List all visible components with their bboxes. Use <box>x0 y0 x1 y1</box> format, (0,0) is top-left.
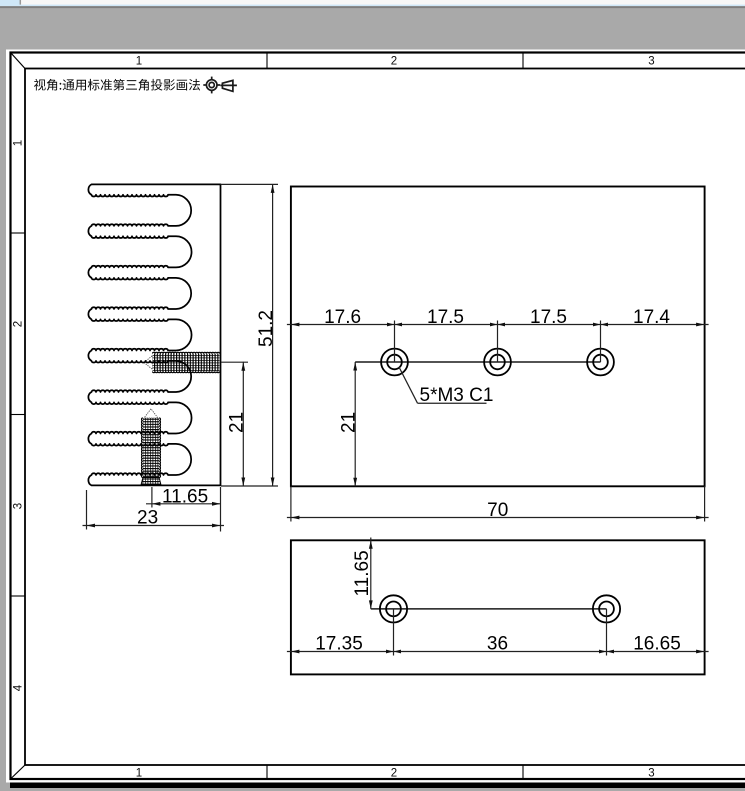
dim 23 (left view overall width) <box>83 490 225 530</box>
hole circle H1 (top view) <box>381 349 408 376</box>
hole circle B1 (bottom view) <box>380 595 407 622</box>
svg-text:21: 21 <box>338 412 359 433</box>
top view body rectangle <box>291 187 705 487</box>
svg-text:36: 36 <box>487 634 508 655</box>
svg-text:17.4: 17.4 <box>633 307 670 328</box>
svg-text:3: 3 <box>13 503 25 509</box>
svg-text:4: 4 <box>13 684 25 691</box>
svg-text:2: 2 <box>13 321 25 327</box>
hole centerline (bottom view) <box>371 608 607 610</box>
svg-text:11.65: 11.65 <box>162 486 208 507</box>
dim 11.65 (bottom view) <box>370 538 372 609</box>
third-angle projection symbol: side view (truncated cone) <box>220 80 237 91</box>
hole circle B2 (bottom view) <box>593 595 620 622</box>
dim 51.2 (left view overall height) <box>221 184 279 486</box>
leader 5*M3 C1 <box>399 367 418 403</box>
svg-text:3: 3 <box>648 768 654 780</box>
bottom view body rectangle <box>291 540 705 674</box>
svg-text:17.5: 17.5 <box>427 307 464 328</box>
heatsink section fill (left view) <box>88 184 220 485</box>
chained dims 17.35/36/16.65 (bottom view) <box>287 609 709 656</box>
dim 11.65 (left view, screw center to right edge) <box>146 487 221 532</box>
horizontal screw ST1 <box>144 352 219 372</box>
svg-text:1: 1 <box>136 768 142 780</box>
svg-text:5*M3 C1: 5*M3 C1 <box>420 385 494 406</box>
hole circle H2 (top view) <box>484 349 511 376</box>
tab bar strip <box>0 0 745 6</box>
vertical screw ST2 <box>141 409 161 486</box>
hole circle H3 (top view) <box>587 349 614 376</box>
svg-text:2: 2 <box>391 768 397 780</box>
svg-text:3: 3 <box>648 56 654 68</box>
projection method note (CJK text as paths) <box>34 79 200 91</box>
hole centerline through circles <box>355 361 600 363</box>
svg-text:1: 1 <box>13 140 25 146</box>
svg-text:11.65: 11.65 <box>352 550 373 596</box>
svg-text:70: 70 <box>487 500 508 521</box>
zone numbers <box>13 56 655 780</box>
dim 70 (top view overall width) <box>287 486 709 521</box>
svg-text:2: 2 <box>391 56 397 68</box>
svg-text:21: 21 <box>227 412 248 433</box>
svg-text:17.5: 17.5 <box>530 307 567 328</box>
zone division ticks <box>11 53 524 780</box>
svg-text:1: 1 <box>136 56 142 68</box>
third-angle projection symbol: front view <box>203 77 220 94</box>
heatsink section outline stroke <box>88 184 220 485</box>
svg-text:17.35: 17.35 <box>315 634 363 655</box>
chained dims 17.6/17.5/17.5/17.4 <box>287 321 709 363</box>
svg-text:51.2: 51.2 <box>256 310 277 347</box>
svg-text:17.6: 17.6 <box>324 307 361 328</box>
dim 21 (top view) <box>354 362 356 486</box>
frame corner diagonals <box>11 53 26 780</box>
svg-text:23: 23 <box>137 508 158 529</box>
svg-text:16.65: 16.65 <box>633 634 681 655</box>
sheet shadow <box>10 783 745 789</box>
dim 21 (left view, screw line to bottom) <box>221 362 248 486</box>
